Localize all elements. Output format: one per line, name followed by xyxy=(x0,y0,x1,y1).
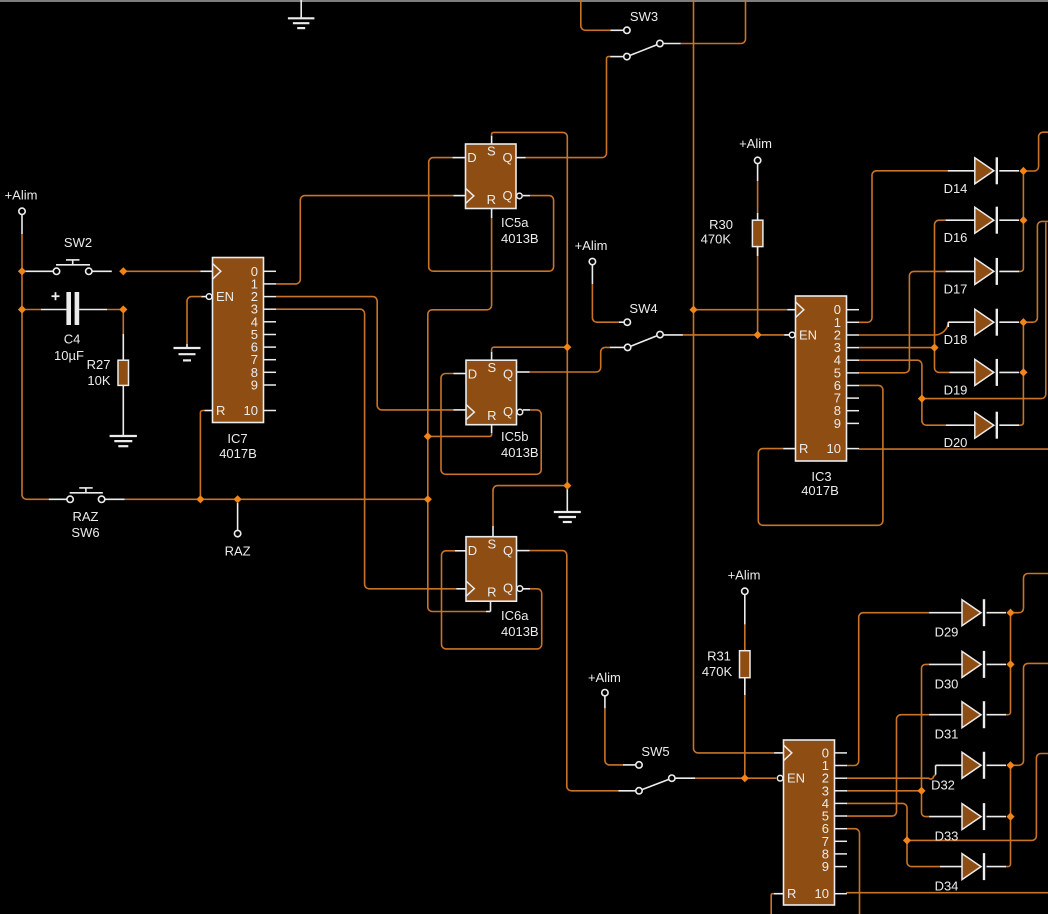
svg-text:IC5b: IC5b xyxy=(501,429,528,444)
svg-text:10: 10 xyxy=(815,886,829,901)
svg-text:10: 10 xyxy=(827,441,841,456)
svg-text:R: R xyxy=(216,403,225,418)
svg-text:4013B: 4013B xyxy=(501,445,539,460)
svg-text:R31: R31 xyxy=(707,649,731,664)
svg-text:S: S xyxy=(487,536,496,551)
svg-text:R: R xyxy=(487,408,496,423)
svg-text:C4: C4 xyxy=(64,332,81,347)
svg-text:Q: Q xyxy=(503,404,513,419)
svg-text:IC3: IC3 xyxy=(811,469,831,484)
svg-text:D20: D20 xyxy=(944,435,968,450)
svg-text:IC7: IC7 xyxy=(227,431,247,446)
svg-text:D14: D14 xyxy=(944,181,968,196)
svg-text:D: D xyxy=(468,543,477,558)
svg-text:IC5a: IC5a xyxy=(501,215,529,230)
svg-text:D17: D17 xyxy=(944,281,968,296)
svg-text:470K: 470K xyxy=(701,232,732,247)
svg-text:IC6a: IC6a xyxy=(501,608,529,623)
svg-text:+Alim: +Alim xyxy=(575,238,608,253)
svg-text:+Alim: +Alim xyxy=(588,670,621,685)
svg-text:10µF: 10µF xyxy=(54,348,84,363)
svg-text:SW4: SW4 xyxy=(629,301,657,316)
svg-text:RAZ: RAZ xyxy=(73,509,99,524)
svg-text:9: 9 xyxy=(251,378,258,393)
svg-text:S: S xyxy=(487,144,496,159)
svg-text:D30: D30 xyxy=(935,676,959,691)
svg-text:D33: D33 xyxy=(935,829,959,844)
svg-text:R30: R30 xyxy=(709,217,733,232)
svg-text:R: R xyxy=(487,192,496,207)
svg-text:+Alim: +Alim xyxy=(5,188,38,203)
svg-text:D31: D31 xyxy=(935,727,959,742)
svg-text:EN: EN xyxy=(216,289,234,304)
svg-text:9: 9 xyxy=(822,859,829,874)
svg-text:4013B: 4013B xyxy=(501,624,539,639)
svg-text:4017B: 4017B xyxy=(801,483,839,498)
svg-text:SW5: SW5 xyxy=(641,744,669,759)
svg-text:D: D xyxy=(467,150,476,165)
svg-text:10: 10 xyxy=(244,403,258,418)
svg-text:SW6: SW6 xyxy=(71,525,99,540)
svg-text:Q: Q xyxy=(502,150,512,165)
svg-text:10K: 10K xyxy=(87,373,110,388)
svg-text:D19: D19 xyxy=(944,382,968,397)
svg-text:S: S xyxy=(487,360,496,375)
svg-text:9: 9 xyxy=(834,416,841,431)
svg-text:D34: D34 xyxy=(935,879,959,894)
svg-text:D29: D29 xyxy=(935,625,959,640)
svg-text:R: R xyxy=(487,585,496,600)
svg-text:+Alim: +Alim xyxy=(728,568,761,583)
svg-text:Q: Q xyxy=(503,581,513,596)
svg-text:SW3: SW3 xyxy=(630,9,658,24)
svg-text:EN: EN xyxy=(787,771,805,786)
svg-text:R: R xyxy=(799,441,808,456)
svg-text:EN: EN xyxy=(799,327,817,342)
svg-text:470K: 470K xyxy=(702,664,733,679)
svg-text:D16: D16 xyxy=(944,230,968,245)
svg-text:SW2: SW2 xyxy=(64,235,92,250)
svg-text:D: D xyxy=(468,366,477,381)
svg-text:Q: Q xyxy=(503,543,513,558)
svg-text:Q: Q xyxy=(502,188,512,203)
svg-text:+Alim: +Alim xyxy=(739,136,772,151)
svg-text:RAZ: RAZ xyxy=(225,544,251,559)
svg-text:4017B: 4017B xyxy=(219,446,257,461)
svg-text:Q: Q xyxy=(503,366,513,381)
svg-text:4013B: 4013B xyxy=(501,231,539,246)
svg-text:D18: D18 xyxy=(944,332,968,347)
svg-text:R27: R27 xyxy=(87,357,111,372)
svg-text:D32: D32 xyxy=(931,777,955,792)
svg-text:R: R xyxy=(787,886,796,901)
